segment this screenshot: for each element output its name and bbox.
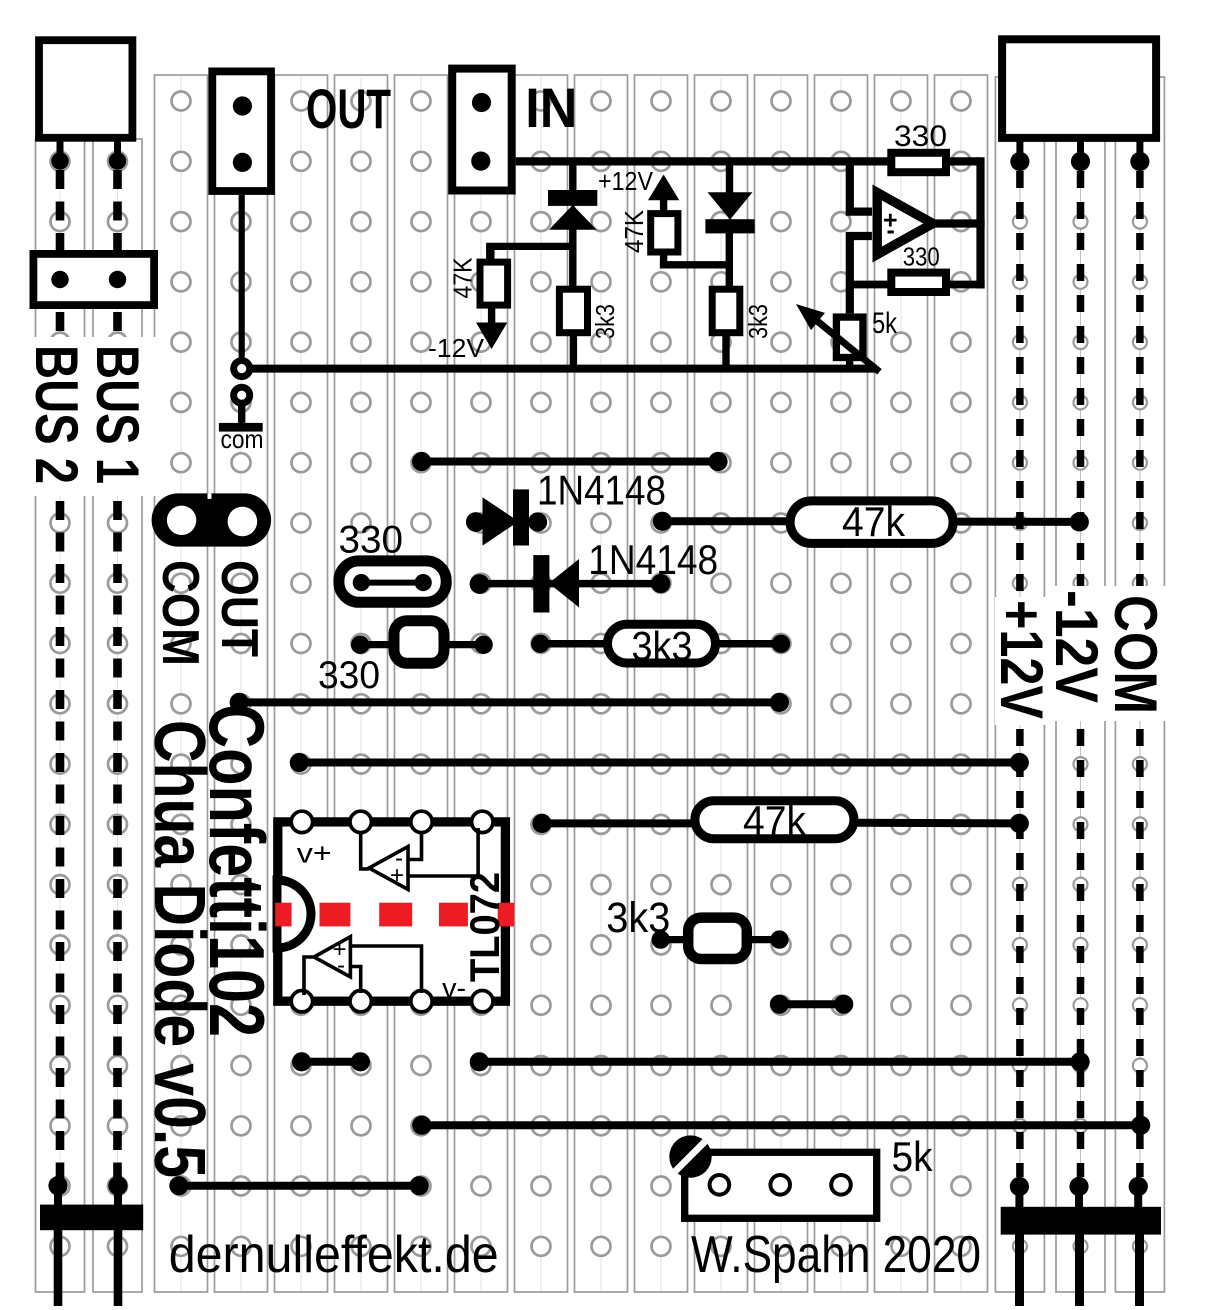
label -12V [428,333,485,363]
svg-text:3k3: 3k3 [606,894,670,942]
label v+ [297,838,332,869]
svg-text:1N4148: 1N4148 [588,536,718,583]
trimmer RV1 5k [669,1135,876,1218]
label 47K (R3) [619,209,649,253]
wire D1 to R1 [486,246,573,259]
resistor R6 330 (bottom) [891,273,946,292]
label 1N4148 (D3) [537,467,666,514]
op-amp U2B (inside IC, bottom) [304,936,422,995]
svg-text:OUT: OUT [306,77,391,140]
resistor R10 47k [790,498,1089,545]
wire R4 to bottom rail [722,332,729,366]
wire BUS 1 (dashed, left inner column) [108,152,127,1206]
bus COM (dashed) [1129,152,1150,1208]
bus +12V (dashed) [1010,152,1030,1208]
wire row15 [770,995,854,1014]
op-amp U2A (inside IC, top) [361,828,478,890]
IC U2 TL072 [277,811,505,1012]
terminal com [219,384,263,432]
wire R2 to bottom rail [570,332,577,366]
wire op-amp output [930,219,985,227]
wire feedback rail [976,157,984,288]
wire BUS 2 (dashed, left outer column) [48,152,68,1206]
svg-text:47k: 47k [842,498,906,545]
wire bottom rail (com to 5k pot) [242,365,877,373]
diode D4 1N4148 [470,555,671,612]
bus -12V (dashed) [1069,152,1090,1208]
label 5k (schematic) [872,307,898,340]
label W.Spahn 2020 [691,1226,981,1284]
svg-text:3k3: 3k3 [590,304,620,339]
label BUS 1 [84,345,151,484]
resistor R8 330 (standing) [351,621,493,664]
label 330 (R5) [894,120,947,153]
svg-text:BUS 2: BUS 2 [23,345,90,484]
op-amp input wire (+) [850,161,872,212]
label +12V (bus) [988,600,1055,719]
label 3k3 (R4) [743,304,773,339]
wire row11 [290,753,1029,772]
label com [221,424,264,454]
op-amp U1 [877,193,933,255]
op-amp input wire (-) / to pot [850,236,872,313]
connector J5 (top-right power header) [1002,39,1156,153]
wire OUT header to com node [239,195,245,364]
wire row16 (short) [292,1052,370,1071]
svg-text:5k: 5k [872,307,898,340]
svg-text:330: 330 [903,241,940,271]
wire R6 left [846,281,891,289]
svg-text:OUT: OUT [210,560,268,657]
label 330 (R6) [903,241,940,271]
resistor R4 3k3 [712,289,740,333]
wire D3 to R10 [653,512,792,531]
svg-text:COM: COM [1102,595,1169,714]
label 1N4148 (D4) [588,536,718,583]
svg-text:+: + [390,862,404,889]
diode D1 [548,165,597,287]
label +12V [598,166,654,196]
resistor R2 3k3 [559,289,587,333]
resistor R7 330 (wire jumper pill) [339,561,446,602]
resistor R12 3k3 (standing) [652,918,789,959]
label 330 (R7) [339,518,404,561]
label 3k3 (R2) [590,304,620,339]
jumper pads OUT/COM [152,493,272,546]
svg-text:47K: 47K [619,209,649,253]
wire R6 right [946,281,985,289]
label OUT (jumper) [210,560,268,657]
svg-text:dernulleffekt.de: dernulleffekt.de [169,1226,499,1284]
wire row17 (to COM bus) [412,1116,1150,1135]
connector J2 (left 2-pin header) [33,254,154,305]
header IN (2-pin) [452,69,512,191]
power arrow -12V [476,305,507,349]
svg-text:v+: v+ [297,838,332,869]
svg-text:-: - [337,952,345,979]
label 47K (R1) [448,257,478,299]
label Confetti102 (title) [193,704,281,1037]
wire row18 [169,1176,429,1195]
connector J1 (top-left jack) [39,40,132,153]
svg-text:330: 330 [894,120,947,153]
label -12V (bus) [1043,590,1110,703]
svg-text:330: 330 [318,654,380,697]
resistor R3 47K [651,214,678,252]
svg-text:3k3: 3k3 [743,304,773,339]
svg-text:47K: 47K [448,257,478,299]
label TL072 [461,872,508,982]
svg-text:330: 330 [339,518,404,561]
IC U2 pin1 red stripe [275,903,514,927]
svg-text:-12V: -12V [428,333,485,363]
wire R3 to D2 [660,251,733,265]
wire top rail (IN to op-amp) [516,157,981,165]
svg-text:COM: COM [151,560,209,666]
svg-text:Chua Diode v0.5: Chua Diode v0.5 [139,720,219,1178]
bus bar (bottom-left) [40,1205,143,1306]
svg-text:3k3: 3k3 [632,623,693,669]
label COM (bus) [1102,595,1169,714]
svg-text:-: - [887,217,895,245]
wire row10 [230,693,789,712]
label COM (jumper) [151,560,209,666]
label OUT (top) [306,77,391,140]
label v- [442,973,466,1004]
wire row6 [412,452,728,471]
svg-text:47k: 47k [743,797,807,844]
wire row16 (long, to -12V bus) [470,1052,1090,1071]
label IN (top) [525,76,577,139]
svg-text:BUS 1: BUS 1 [84,345,151,484]
resistor R11 47k [532,797,1029,844]
svg-text:W.Spahn 2020: W.Spahn 2020 [691,1226,981,1284]
power arrow +12V [648,175,679,213]
svg-text:1N4148: 1N4148 [537,467,666,514]
diode D3 1N4148 [466,489,547,545]
resistor R5 330 (top) [891,153,946,172]
resistor R9 3k3 [531,623,790,669]
label 5k (trimmer) [892,1133,934,1180]
svg-text:+12V: +12V [598,166,654,196]
svg-text:com: com [221,424,264,454]
svg-text:TL072: TL072 [461,872,508,982]
svg-text:-12V: -12V [1043,590,1110,703]
label 3k3 (R12) [606,894,670,942]
label 330 (R8) [318,654,380,697]
bus bar (bottom-right) [1001,1207,1161,1306]
svg-text:IN: IN [525,76,577,139]
diode D2 [705,165,754,289]
potentiometer 5k (schematic) [796,304,880,372]
label BUS 2 [23,345,90,484]
node com junction [230,357,253,380]
resistor R1 47K [480,262,508,305]
svg-text:5k: 5k [892,1133,934,1180]
label Chua Diode v0.5 (title) [139,720,219,1178]
header OUT (2-pin) [212,71,271,191]
label dernulleffekt.de [169,1226,499,1284]
